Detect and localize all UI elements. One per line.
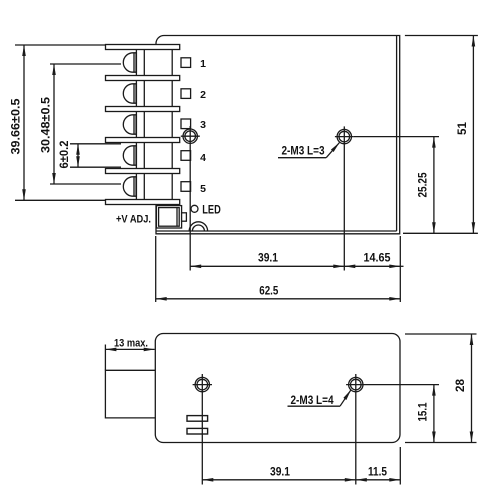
left edge extension line down (top view) (155, 236, 157, 302)
svg-text:1: 1 (200, 58, 206, 70)
dimension 51 extension top (405, 35, 478, 37)
terminal bar 2 (106, 76, 180, 81)
dimension 39.66±0.5 extension bottom (15, 199, 106, 201)
dimension 28 (453, 334, 472, 443)
pin square 5 (181, 182, 191, 192)
svg-text:2-M3 L=3: 2-M3 L=3 (282, 144, 325, 158)
hole H2 extension line down (343, 147, 345, 271)
hole H2 extension line right (354, 136, 439, 138)
case outline bottom view (155, 334, 400, 443)
svg-text:62.5: 62.5 (259, 283, 278, 297)
pin square 2 (181, 89, 191, 99)
vent slot 1 (187, 416, 208, 422)
mounting hole H4 bottom view (346, 374, 365, 395)
dimension 62.5 (156, 283, 401, 299)
hole H1 extension line down (189, 147, 191, 271)
dimension 13 max. extension (104, 345, 106, 371)
screw terminal 1 (123, 53, 136, 72)
dimension 51 (455, 36, 473, 234)
dimension 6±0.2 (57, 140, 78, 168)
dimension 25.25 (415, 137, 434, 234)
svg-text:25.25: 25.25 (415, 172, 429, 197)
dimension 6±0.2 extension top (70, 143, 121, 145)
svg-text:15.1: 15.1 (415, 402, 429, 421)
dimension 39.1 (top view) (190, 251, 344, 267)
right edge extension line down (top view) (399, 236, 401, 302)
screw terminal 2 (123, 84, 136, 103)
dimension 6±0.2 extension bottom (70, 166, 121, 168)
svg-text:30.48±0.5: 30.48±0.5 (39, 97, 53, 153)
dimension 30.48±0.5 (39, 64, 55, 184)
dimension 30.48±0.5 extension bottom (50, 183, 121, 185)
terminal bar 3 (106, 107, 180, 112)
dimension 30.48±0.5 extension top (50, 63, 121, 65)
LED indicator (191, 205, 198, 212)
dimension 11.5 (bottom view) (356, 464, 401, 480)
svg-text:2-M3 L=4: 2-M3 L=4 (291, 393, 334, 407)
terminal bar 5 (106, 169, 180, 174)
dimension 28 extension top (405, 333, 477, 335)
mounting hole H1 top view (181, 126, 200, 147)
svg-text:39.66±0.5: 39.66±0.5 (9, 98, 23, 154)
svg-text:+V ADJ.: +V ADJ. (116, 213, 151, 225)
bottom edge bump (output hole arcs) (189, 222, 207, 231)
right edge extension line down (bottom view) (399, 447, 401, 485)
screw terminal 5 (123, 177, 136, 196)
svg-text:28: 28 (453, 379, 467, 392)
terminal block body (105, 44, 180, 205)
svg-text:39.1: 39.1 (270, 464, 290, 478)
pin square 1 (181, 58, 191, 68)
label 2-M3 L=4 (288, 390, 352, 407)
dimension 13 max. (105, 338, 154, 350)
hole H4 extension line down (355, 395, 357, 485)
dimension 39.66±0.5 extension top (15, 44, 106, 46)
mounting hole H2 top view (335, 126, 354, 147)
terminal bar 6 (106, 200, 180, 205)
svg-text:13 max.: 13 max. (114, 338, 148, 350)
potentiometer +V ADJ (156, 206, 186, 228)
pin square 3 (181, 119, 191, 129)
terminal block protrusion side view (105, 370, 155, 418)
hole H3 extension line down (201, 395, 203, 485)
label 2-M3 L=3 (278, 143, 340, 158)
svg-text:4: 4 (200, 152, 206, 164)
dimension 39.66±0.5 (9, 45, 25, 200)
svg-text:39.1: 39.1 (258, 251, 278, 265)
svg-text:51: 51 (455, 122, 469, 135)
pin square 4 (181, 151, 191, 161)
mounting hole H3 bottom view (193, 374, 212, 395)
svg-text:3: 3 (200, 119, 206, 131)
screw terminal 4 (123, 146, 136, 165)
screw terminal 3 (123, 115, 136, 134)
svg-text:LED: LED (202, 204, 221, 216)
svg-text:6±0.2: 6±0.2 (57, 140, 71, 168)
svg-text:2: 2 (200, 89, 206, 101)
case outline top view (156, 36, 400, 234)
vent slot 2 (187, 428, 208, 434)
svg-text:11.5: 11.5 (368, 464, 387, 478)
dimension 51/25.25 extension bottom (403, 232, 478, 234)
hole H4 extension line right (366, 384, 440, 386)
dimension 39.1 (bottom view) (202, 464, 355, 480)
terminal bar 4 (106, 138, 180, 143)
svg-text:14.65: 14.65 (364, 251, 391, 265)
svg-text:5: 5 (200, 183, 206, 195)
dimension 28/15.1 extension bottom (405, 442, 477, 444)
dimension 14.65 (top view) (344, 251, 403, 267)
dimension 15.1 (415, 385, 434, 443)
terminal bar 1 (106, 45, 180, 50)
